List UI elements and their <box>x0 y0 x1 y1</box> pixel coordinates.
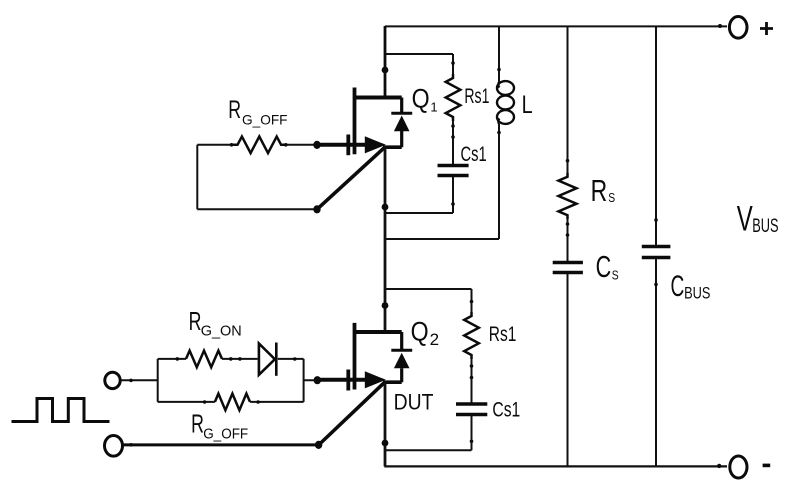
svg-text:Rs1: Rs1 <box>489 323 517 346</box>
svg-text:Cs1: Cs1 <box>461 143 487 166</box>
svg-text:2: 2 <box>430 330 439 349</box>
svg-text:Q: Q <box>412 83 430 113</box>
svg-text:R: R <box>189 308 202 336</box>
svg-text:C: C <box>671 270 685 303</box>
svg-text:C: C <box>596 249 612 284</box>
svg-text:BUS: BUS <box>684 285 710 303</box>
svg-text:Q: Q <box>411 317 429 347</box>
svg-text:DUT: DUT <box>394 389 434 414</box>
svg-text:S: S <box>608 190 615 205</box>
svg-text:V: V <box>737 200 753 239</box>
svg-text:BUS: BUS <box>752 215 778 237</box>
svg-text:R: R <box>191 410 204 438</box>
svg-text:S: S <box>612 268 619 283</box>
svg-text:1: 1 <box>430 99 437 114</box>
svg-text:R: R <box>228 96 241 124</box>
svg-text:Rs1: Rs1 <box>464 84 489 108</box>
svg-text:G_OFF: G_OFF <box>203 426 248 442</box>
svg-text:L: L <box>522 91 533 119</box>
svg-text:R: R <box>591 173 608 208</box>
svg-text:G_OFF: G_OFF <box>242 111 288 127</box>
svg-text:Cs1: Cs1 <box>492 399 520 422</box>
svg-text:G_ON: G_ON <box>201 324 242 340</box>
